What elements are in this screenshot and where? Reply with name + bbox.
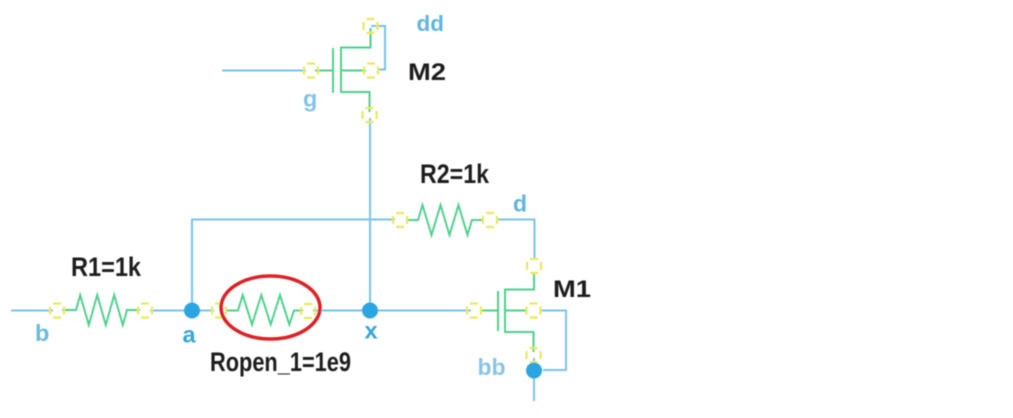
wire R2 right to M1 drain bbox=[496, 220, 535, 261]
resistor R1 bbox=[62, 295, 140, 325]
resistor R1 right terminal marker bbox=[138, 304, 152, 318]
svg-text:a: a bbox=[183, 322, 197, 348]
wire M2 gate bbox=[222, 70, 306, 72]
M2 drain terminal marker bbox=[364, 19, 378, 33]
wire main horizontal left segment (b to R1) bbox=[11, 310, 53, 312]
svg-text:M2: M2 bbox=[408, 59, 446, 86]
M1 gate bar bbox=[497, 291, 499, 331]
svg-text:x: x bbox=[365, 318, 378, 344]
svg-text:d: d bbox=[513, 191, 527, 217]
resistor Ropen_1 bbox=[225, 295, 303, 325]
transistor M2 bbox=[315, 28, 371, 112]
svg-text:dd: dd bbox=[417, 11, 445, 36]
svg-text:g: g bbox=[303, 86, 317, 112]
M1 gate lead bbox=[481, 310, 498, 312]
wire horizontal R2 row bbox=[191, 219, 395, 221]
svg-text:M1: M1 bbox=[553, 276, 591, 303]
M2 drain lead bbox=[340, 28, 371, 48]
wire R1 right to Ropen left (through node a) bbox=[150, 310, 214, 312]
M2 gate lead bbox=[315, 70, 333, 72]
M1 bulk terminal marker bbox=[527, 304, 541, 318]
red highlight ellipse around Ropen_1 bbox=[221, 276, 320, 339]
resistor R2 left terminal marker bbox=[393, 213, 407, 227]
wire vertical M2 source down to node x bbox=[369, 118, 371, 310]
M2 channel bar bbox=[340, 47, 342, 92]
wire Ropen right to M1 gate (through node x) bbox=[313, 310, 471, 312]
wire below node bb bbox=[533, 358, 535, 401]
svg-text:R1=1k: R1=1k bbox=[71, 252, 142, 282]
svg-text:b: b bbox=[35, 320, 49, 346]
svg-text:bb: bb bbox=[478, 354, 506, 380]
wire vertical from node a up bbox=[191, 220, 193, 311]
node a junction dot bbox=[184, 303, 200, 319]
resistor R2 right terminal marker bbox=[483, 213, 497, 227]
M1 bulk lead bbox=[504, 310, 526, 312]
M2 bulk lead bbox=[340, 70, 366, 72]
node x junction dot bbox=[362, 303, 378, 319]
resistor R2 bbox=[406, 205, 484, 235]
M2 bulk terminal marker bbox=[364, 64, 378, 78]
resistor R1 left terminal marker bbox=[50, 304, 64, 318]
M1 source terminal marker bbox=[527, 348, 541, 362]
resistor Ropen_1 left terminal marker bbox=[212, 304, 226, 318]
M2 gate terminal marker bbox=[304, 64, 318, 78]
svg-text:R2=1k: R2=1k bbox=[420, 159, 490, 189]
svg-text:Ropen_1=1e9: Ropen_1=1e9 bbox=[210, 347, 351, 377]
M1 channel bar bbox=[504, 289, 506, 332]
M1 drain lead bbox=[504, 273, 534, 290]
M1 source lead bbox=[504, 332, 534, 352]
M1 gate terminal marker bbox=[467, 304, 481, 318]
wire M1 bulk loop to bb bbox=[541, 311, 566, 371]
M2 source lead bbox=[340, 92, 370, 112]
M2 source terminal marker bbox=[363, 108, 377, 122]
wire M2 drain-bulk loop bbox=[371, 26, 385, 70]
node bb junction dot bbox=[526, 363, 542, 379]
M2 gate bar bbox=[332, 48, 334, 93]
resistor Ropen_1 right terminal marker bbox=[301, 304, 315, 318]
M1 drain terminal marker bbox=[527, 259, 541, 273]
transistor M1 bbox=[481, 273, 534, 353]
